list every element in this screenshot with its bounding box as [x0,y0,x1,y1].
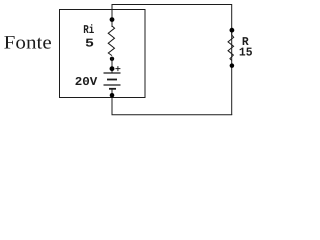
battery polarity plus sign [115,66,120,71]
node: junction dot Ri top [110,17,115,22]
svg-text:Fonte: Fonte [4,32,52,53]
node: junction dot R top [230,28,235,33]
wire top [112,4,232,6]
node: battery negative terminal dot [110,93,115,98]
node: junction dot R bottom [230,63,235,68]
wire Ri to battery top [111,57,113,73]
wire battery bottom to bottom wire [111,89,113,115]
battery 20V plate 2 (short thick) [107,79,117,81]
node: battery positive terminal dot [110,66,115,71]
resistor R zigzag [228,33,234,61]
wire right [231,4,233,115]
svg-text:5: 5 [85,37,94,51]
battery 20V plate 1 (long) [104,72,121,74]
wire bottom [112,114,233,116]
svg-text:20V: 20V [75,75,98,89]
resistor Ri zigzag [108,26,114,56]
node: junction dot Ri bottom [110,57,114,61]
source box [60,10,146,98]
wire: top wire down to resistor Ri [111,4,113,27]
battery 20V plate 4 (short thick) [109,88,116,90]
svg-text:Ri: Ri [83,23,94,37]
battery 20V plate 3 (long) [104,84,121,86]
svg-text:15: 15 [239,45,253,59]
